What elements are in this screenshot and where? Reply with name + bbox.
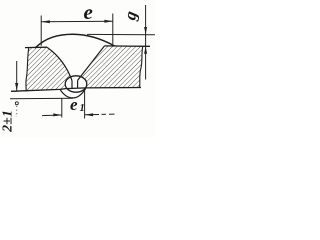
dimension e: line xyxy=(41,20,113,23)
2±1 upper extension (plate bottom extended) xyxy=(11,90,28,93)
plate bottom line xyxy=(11,88,141,92)
svg-text:e: e xyxy=(70,95,78,114)
right plate top surface xyxy=(105,45,151,47)
weld bead face arc xyxy=(35,34,115,48)
root bead circle xyxy=(65,76,87,92)
dimension e1: left extension line xyxy=(61,98,63,117)
root bead circle white mask xyxy=(65,76,87,92)
dimension e: right arrow xyxy=(104,20,113,23)
2±1 lower extension (penetration bottom tangent) xyxy=(10,97,73,100)
svg-text:2±1: 2±1 xyxy=(1,110,16,133)
left plate break edge (wavy) xyxy=(26,48,29,92)
dimension e1: right extension line xyxy=(84,88,86,118)
penetration bead arc xyxy=(60,88,86,98)
left plate hatched body xyxy=(26,47,72,91)
g: dimension vertical line xyxy=(145,5,147,80)
left root edge xyxy=(71,81,73,89)
right plate hatched body xyxy=(78,46,143,88)
left plate top surface xyxy=(25,46,47,48)
right root edge xyxy=(77,80,79,88)
svg-text:e: e xyxy=(84,0,93,24)
e1: dash continuation xyxy=(102,113,115,115)
e1: left outside arrow xyxy=(42,114,62,117)
dimension e: left extension line xyxy=(40,16,42,46)
e1: right outside arrow xyxy=(85,114,100,116)
2±1 dotted continuation with circle xyxy=(15,102,18,105)
svg-text:g: g xyxy=(120,9,141,23)
g: upper arrow (down to tangent) xyxy=(144,27,147,35)
svg-text:1: 1 xyxy=(80,103,85,114)
dimension 2±1: vertical line with down arrow xyxy=(16,61,18,91)
right plate break edge (wavy) xyxy=(140,46,143,88)
g: bead top tangent line xyxy=(87,33,155,35)
dimension e: right extension line xyxy=(112,14,114,45)
left groove face xyxy=(47,47,72,80)
dimension e: left arrow xyxy=(41,20,50,23)
right groove face xyxy=(78,46,105,81)
g: lower arrow (up to surface) xyxy=(144,46,147,54)
